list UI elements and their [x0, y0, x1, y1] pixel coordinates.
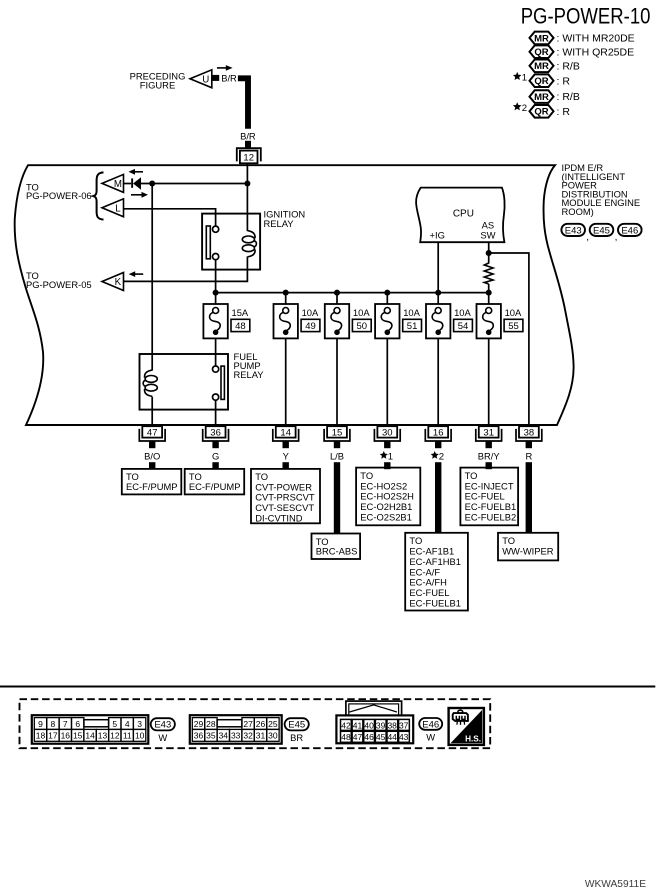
bus junction dot at fuse 50 [334, 290, 340, 296]
svg-text:1: 1 [522, 73, 527, 84]
connector E45 grid [190, 715, 282, 744]
fuel pump relay label [234, 351, 265, 380]
arrow right above U [217, 65, 233, 71]
bus junction dot at fuse 49 [283, 290, 289, 296]
svg-text:EC-INJECT: EC-INJECT [465, 480, 514, 491]
svg-text:2: 2 [439, 451, 444, 462]
svg-text:EC-FUELB1: EC-FUELB1 [465, 501, 517, 512]
pin 30 [374, 426, 400, 448]
legend hexagon MR row3 [530, 60, 580, 73]
svg-text:BR: BR [290, 732, 303, 743]
wire stub pin47 to box [149, 462, 155, 469]
svg-text:11: 11 [123, 731, 132, 741]
svg-text:L/B: L/B [330, 450, 344, 461]
svg-text:RELAY: RELAY [264, 218, 295, 229]
connector E46 grid [336, 715, 413, 743]
svg-text:ROOM): ROOM) [562, 206, 594, 217]
footer separator line [0, 686, 655, 688]
svg-text:SW: SW [480, 230, 495, 241]
bus junction dot at fuse 55 [486, 290, 492, 296]
wire stub from U [212, 75, 219, 81]
svg-text:: R: : R [557, 106, 571, 118]
svg-text:,: , [615, 232, 618, 243]
connector triangle K [102, 273, 124, 291]
svg-text:TO: TO [465, 470, 478, 481]
svg-text:EC-FUELB2: EC-FUELB2 [465, 512, 517, 523]
TO PG-POWER-06 label [26, 181, 92, 201]
wire +IG down to bus [437, 242, 439, 292]
footer dashed box [20, 699, 491, 748]
svg-text:29: 29 [194, 719, 204, 729]
svg-text:38: 38 [524, 428, 535, 439]
pin 38 [516, 426, 542, 448]
wire stub pin36 to box [212, 462, 218, 469]
svg-text:7: 7 [63, 719, 68, 729]
svg-text:EC-A/F: EC-A/F [409, 566, 440, 577]
svg-text:WKWA5911E: WKWA5911E [585, 879, 646, 890]
svg-text:: R/B: : R/B [557, 60, 580, 72]
svg-text:CVT-POWER: CVT-POWER [255, 481, 312, 492]
fuel pump relay coil [143, 370, 157, 396]
svg-text:B/R: B/R [221, 73, 237, 84]
fuse 51 10A [375, 304, 421, 338]
wire stub above pin 12 [245, 141, 251, 149]
svg-text:8: 8 [51, 719, 56, 729]
dest box CVT [251, 469, 320, 524]
svg-text:35: 35 [206, 731, 216, 741]
fuse 55 10A [477, 304, 523, 338]
fuse 49 10A [274, 304, 320, 338]
dest box WW-WIPER [498, 533, 558, 561]
wire fuse49 to pin 14 [285, 338, 287, 425]
connector oval E46 [618, 224, 642, 237]
fuel pump relay contact bar [221, 366, 224, 399]
wire fuse51 to pin 30 [386, 338, 388, 425]
wire fuse50 to pin 15 [336, 338, 338, 425]
node junction dot B [244, 181, 250, 187]
svg-text:12: 12 [110, 731, 120, 741]
wire label star2 [431, 451, 439, 459]
svg-text:RELAY: RELAY [234, 369, 265, 380]
fuel pump relay contact pin top [213, 366, 219, 372]
svg-text:EC-AF1HB1: EC-AF1HB1 [409, 556, 461, 567]
wire bus to fuse 55 [488, 293, 490, 304]
wire fuse48 to fuel pump relay [215, 338, 217, 366]
fuel pump relay box [140, 354, 229, 410]
wire fuse54 to pin 16 [437, 338, 439, 425]
svg-text:BR/Y: BR/Y [478, 450, 501, 461]
svg-text:QR: QR [534, 47, 548, 58]
svg-text:WW-WIPER: WW-WIPER [502, 546, 554, 557]
svg-text:14: 14 [85, 731, 95, 741]
svg-text:50: 50 [357, 321, 368, 332]
svg-text:30: 30 [268, 731, 278, 741]
bus junction dot at fuse 51 [384, 290, 390, 296]
wire L to relay contact [124, 209, 216, 226]
svg-text:15: 15 [332, 428, 343, 439]
legend hexagon QR row2 [530, 45, 635, 58]
dest box HO2S [356, 468, 420, 526]
wire bus to fuse 54 [437, 293, 439, 304]
ignition relay coil [242, 231, 256, 257]
IPDM E/R box outline [15, 165, 574, 425]
star 1 label [513, 72, 522, 80]
wire bus to fuse 49 [285, 293, 287, 304]
svg-text:FIGURE: FIGURE [140, 80, 175, 91]
bus junction dot at fuse 48 [213, 290, 219, 296]
svg-text:51: 51 [407, 321, 418, 332]
svg-text:30: 30 [382, 428, 393, 439]
svg-text:TO: TO [409, 535, 422, 546]
arrow left above M [129, 169, 144, 175]
legend hexagon QR row4 [530, 74, 571, 87]
svg-text:36: 36 [210, 428, 221, 439]
thick wire corner to pin 12 [238, 78, 248, 129]
H.S. connector icon [453, 710, 468, 725]
svg-text:25: 25 [268, 719, 278, 729]
pin label AS SW [480, 220, 495, 241]
svg-text:28: 28 [206, 719, 216, 729]
svg-text:PG-POWER-06: PG-POWER-06 [26, 190, 92, 201]
svg-text:EC-HO2S2H: EC-HO2S2H [360, 491, 414, 502]
connector triangle M [102, 174, 124, 192]
dest box INJECT [460, 468, 518, 526]
connector E43 grid [32, 715, 149, 744]
wire M to pin12 line [141, 183, 248, 185]
wire stub pin14 to box [283, 462, 289, 469]
svg-text:5: 5 [112, 719, 117, 729]
svg-text:10A: 10A [302, 307, 319, 318]
svg-text:G: G [212, 450, 219, 461]
svg-text:15A: 15A [232, 307, 249, 318]
svg-text:CVT-SESCVT: CVT-SESCVT [255, 502, 314, 513]
svg-text:MR: MR [534, 33, 549, 44]
wire resistor to bus [488, 284, 490, 293]
svg-text:PG-POWER-10: PG-POWER-10 [521, 4, 651, 29]
connector E46 tab [346, 701, 402, 715]
svg-text:+IG: +IG [430, 230, 445, 241]
svg-text:E43: E43 [154, 720, 171, 731]
svg-text:EC-F/PUMP: EC-F/PUMP [189, 481, 241, 492]
fuel pump relay contact pin bottom [213, 394, 219, 400]
svg-text:32: 32 [243, 731, 253, 741]
svg-text:MR: MR [534, 61, 549, 72]
wire pin12 down to coil [246, 163, 248, 231]
svg-text:EC-AF1B1: EC-AF1B1 [409, 546, 454, 557]
connector oval E43 [561, 224, 589, 243]
svg-text:16: 16 [433, 428, 444, 439]
svg-text:17: 17 [48, 731, 58, 741]
svg-text:34: 34 [219, 731, 229, 741]
wire fp contact to pin 36 [215, 400, 217, 425]
svg-text:48: 48 [341, 732, 351, 742]
wire bus to fuse 48 [215, 293, 217, 304]
svg-text:R: R [526, 450, 533, 461]
svg-text:46: 46 [364, 732, 374, 742]
svg-text:27: 27 [243, 719, 253, 729]
dest box EC-F/PUMP 2 [185, 469, 245, 495]
svg-text:18: 18 [36, 731, 46, 741]
connector oval E45 [590, 224, 618, 243]
wire pin38 long to WW-WIPER [526, 462, 532, 533]
svg-text:,: , [586, 232, 589, 243]
wire pin16 long to box [435, 462, 441, 533]
node AS SW junction [486, 250, 492, 256]
wire coil bottom to K [124, 257, 248, 282]
dest box AF [405, 533, 468, 611]
H.S. mark box [449, 708, 484, 745]
wire contact bottom to bus [215, 260, 217, 293]
svg-text:31: 31 [483, 428, 494, 439]
svg-text:CPU: CPU [453, 208, 474, 219]
svg-text:31: 31 [256, 731, 266, 741]
svg-text:47: 47 [147, 428, 158, 439]
wire M-junction down to fp coil [151, 184, 153, 371]
svg-text:13: 13 [98, 731, 108, 741]
svg-text:E46: E46 [621, 225, 638, 236]
wire label star1 [380, 451, 388, 459]
fuse 54 10A [426, 304, 472, 338]
svg-text:EC-FUEL: EC-FUEL [465, 491, 505, 502]
svg-text:PG-POWER-05: PG-POWER-05 [26, 279, 92, 290]
svg-text:39: 39 [376, 720, 386, 730]
svg-text:14: 14 [280, 428, 291, 439]
svg-text:QR: QR [534, 76, 548, 87]
svg-text:38: 38 [387, 720, 397, 730]
node junction dot A [149, 181, 155, 187]
svg-text:10A: 10A [454, 307, 471, 318]
star 2 label [513, 102, 522, 110]
svg-text:47: 47 [353, 732, 363, 742]
TO PG-POWER-05 label [26, 270, 92, 290]
wire AS SW to pin 38 [489, 253, 529, 425]
ignition relay label [264, 209, 306, 229]
svg-text:10A: 10A [505, 307, 522, 318]
pin 16 [425, 426, 451, 448]
svg-text:E46: E46 [422, 719, 439, 730]
pin 31 [476, 426, 502, 448]
svg-text:48: 48 [235, 321, 246, 332]
svg-text:36: 36 [194, 731, 204, 741]
svg-text:33: 33 [231, 731, 241, 741]
svg-text:CVT-PRSCVT: CVT-PRSCVT [255, 492, 315, 503]
svg-text:4: 4 [125, 719, 130, 729]
pin 15 [324, 426, 350, 448]
ignition relay box [202, 214, 260, 270]
bus wire [216, 292, 489, 294]
wire fp coil to pin 47 [151, 397, 153, 425]
svg-text:10A: 10A [403, 307, 420, 318]
svg-text:1: 1 [388, 451, 393, 462]
resistor R [484, 263, 493, 284]
svg-text:B/O: B/O [144, 450, 160, 461]
brace [93, 172, 103, 219]
svg-text:: R/B: : R/B [557, 91, 580, 103]
svg-text:EC-O2S2B1: EC-O2S2B1 [360, 512, 412, 523]
pin 12 bracket [237, 148, 261, 161]
IPDM E/R label [562, 162, 641, 217]
svg-text:: WITH QR25DE: : WITH QR25DE [557, 46, 635, 58]
svg-text:W: W [426, 731, 435, 742]
fuse 48 15A [203, 304, 249, 338]
ignition relay contact pin top [213, 226, 219, 232]
svg-text:B/R: B/R [240, 130, 256, 141]
wire AS SW down [488, 242, 490, 263]
ignition relay contact pin bottom [213, 254, 219, 260]
legend hexagon MR row5 [530, 90, 580, 103]
bus junction dot at fuse 54 [435, 290, 441, 296]
svg-text:54: 54 [458, 321, 469, 332]
svg-text:QR: QR [534, 107, 548, 118]
connector oval E43 footer [151, 718, 175, 743]
svg-text:TO: TO [360, 470, 373, 481]
wire bus to fuse 50 [336, 293, 338, 304]
svg-text:26: 26 [256, 719, 266, 729]
svg-text:EC-A/FH: EC-A/FH [409, 577, 447, 588]
svg-text:2: 2 [522, 103, 527, 114]
legend hexagon MR row1 [530, 32, 635, 45]
svg-text:BRC-ABS: BRC-ABS [316, 546, 358, 557]
wire stub pin31 to box [486, 462, 492, 469]
svg-text:EC-FUELB1: EC-FUELB1 [409, 598, 461, 609]
pin 47 [139, 426, 165, 448]
svg-text:TO: TO [502, 535, 515, 546]
connector oval E46 footer [419, 718, 442, 742]
svg-text:43: 43 [399, 732, 409, 742]
svg-text:55: 55 [508, 321, 519, 332]
svg-text:3: 3 [137, 719, 142, 729]
svg-text:10: 10 [135, 731, 145, 741]
ignition relay contact bar [206, 226, 210, 259]
svg-text:EC-F/PUMP: EC-F/PUMP [126, 481, 178, 492]
fuse 50 10A [325, 304, 371, 338]
wire fuse55 to pin 31 [488, 338, 490, 425]
svg-text:EC-HO2S2: EC-HO2S2 [360, 480, 407, 491]
svg-text:EC-FUEL: EC-FUEL [409, 587, 449, 598]
svg-text:45: 45 [376, 732, 386, 742]
svg-text:: R: : R [557, 75, 571, 87]
svg-text:H.S.: H.S. [465, 735, 481, 744]
svg-text:49: 49 [305, 321, 316, 332]
CPU box [416, 188, 505, 243]
svg-text:6: 6 [75, 719, 80, 729]
pin 36 [203, 426, 229, 448]
svg-text:K: K [115, 277, 122, 288]
preceding figure label [130, 71, 186, 91]
svg-text:U: U [202, 74, 209, 85]
pin 12 box [240, 151, 258, 164]
svg-text:E45: E45 [593, 225, 610, 236]
connector oval E45 footer [285, 718, 309, 743]
svg-text:42: 42 [341, 720, 351, 730]
svg-text:9: 9 [38, 719, 43, 729]
svg-text:: WITH MR20DE: : WITH MR20DE [557, 33, 635, 45]
svg-text:L: L [115, 203, 121, 214]
pin 14 [273, 426, 299, 448]
legend hexagon QR row6 [530, 105, 571, 118]
svg-text:10A: 10A [353, 307, 370, 318]
svg-text:W: W [158, 732, 167, 743]
wire pin15 long to BRC-ABS [334, 462, 340, 533]
svg-text:EC-O2H2B1: EC-O2H2B1 [360, 501, 412, 512]
svg-text:Y: Y [283, 450, 290, 461]
arrow right above L [131, 192, 148, 198]
svg-text:37: 37 [399, 720, 409, 730]
svg-text:E45: E45 [288, 720, 305, 731]
svg-text:DI-CVTIND: DI-CVTIND [255, 513, 303, 524]
svg-text:41: 41 [353, 720, 363, 730]
connector triangle L [102, 199, 124, 217]
svg-text:44: 44 [387, 732, 397, 742]
svg-text:15: 15 [73, 731, 83, 741]
svg-text:40: 40 [364, 720, 374, 730]
dest box EC-F/PUMP 1 [122, 469, 182, 495]
svg-text:M: M [114, 179, 122, 190]
svg-text:16: 16 [61, 731, 71, 741]
svg-text:E43: E43 [565, 225, 582, 236]
wire bus to fuse 51 [386, 293, 388, 304]
diode D [124, 177, 142, 190]
dest box BRC-ABS [312, 534, 361, 560]
svg-text:MR: MR [534, 92, 549, 103]
arrow left above K [129, 271, 144, 277]
wire stub pin30 to box [384, 462, 390, 469]
connector triangle U [190, 70, 212, 88]
svg-text:12: 12 [243, 153, 254, 164]
svg-text:TO: TO [255, 471, 268, 482]
